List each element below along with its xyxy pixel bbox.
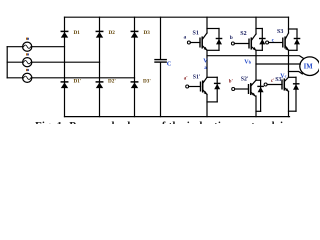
svg-text:S3: S3 — [277, 29, 283, 35]
wire leg A mid riser — [206, 50, 208, 77]
svg-text:b': b' — [229, 80, 233, 85]
igbt S3 — [266, 33, 289, 51]
wire S3 diode loop bottom — [289, 49, 298, 51]
igbt S2' — [232, 80, 256, 96]
wire S2' emitter riser — [255, 96, 257, 117]
wire S2 diode loop bottom — [256, 49, 262, 51]
wire S1' diode loop bottom — [207, 101, 217, 103]
igbt S3' — [264, 77, 289, 91]
diode D2 — [96, 31, 103, 37]
capacitor C — [155, 17, 166, 116]
wire bridge leg3 — [134, 17, 136, 116]
wire bridge leg2 — [99, 17, 101, 116]
wire S3' emitter riser — [288, 91, 290, 116]
svg-text:D2': D2' — [108, 78, 116, 84]
diode D3' — [131, 82, 138, 88]
svg-text:a: a — [184, 35, 187, 41]
svg-text:D1: D1 — [74, 30, 81, 36]
svg-text:S1: S1 — [193, 31, 199, 37]
ac source V3 — [23, 73, 32, 82]
wire bus to V1 — [7, 46, 22, 48]
svg-text:C: C — [167, 61, 172, 68]
diode S3 freewheel — [294, 29, 300, 50]
wire leg C mid riser — [288, 50, 290, 77]
svg-text:D1': D1' — [74, 78, 82, 84]
svg-text:S2': S2' — [241, 77, 249, 83]
ac source V2 — [23, 58, 32, 67]
diode S1' freewheel — [214, 77, 220, 102]
wire leg B mid riser — [255, 50, 257, 80]
diode S1 freewheel — [216, 29, 222, 51]
diode D3 — [131, 31, 138, 37]
wire S3 diode loop top — [289, 28, 298, 30]
phase mark B — [26, 53, 29, 55]
wire S2 diode loop top — [256, 28, 262, 30]
svg-text:D2: D2 — [109, 30, 116, 36]
svg-text:Fig. 1: Proposed scheme of the: Fig. 1: Proposed scheme of the induction… — [35, 120, 294, 124]
wire phase A to leg1 — [32, 46, 65, 48]
wire S1 diode loop top — [207, 28, 219, 30]
igbt S2 — [231, 34, 256, 51]
wire S1' emitter riser — [206, 94, 208, 116]
wire neutral bus — [6, 47, 8, 78]
phase mark C — [26, 69, 29, 71]
ac source V1 — [23, 42, 32, 51]
wire phase line Vb — [256, 63, 300, 65]
svg-text:V: V — [203, 59, 208, 65]
diode S3' freewheel — [293, 77, 299, 111]
wire DC- bottom rail — [65, 116, 290, 118]
svg-text:a': a' — [184, 77, 188, 82]
wire phase C to leg3 — [32, 77, 135, 79]
wire S2' diode loop bottom — [256, 110, 261, 112]
wire S1 diode loop bottom — [207, 49, 219, 51]
diode S2' freewheel — [258, 80, 264, 111]
wire bus to V3 — [7, 77, 22, 79]
diode D2' — [96, 82, 103, 88]
wire phase line Va — [207, 56, 303, 59]
wire S3' diode loop top — [289, 76, 297, 78]
motor IM — [300, 57, 320, 76]
diode D1' — [61, 82, 68, 88]
svg-text:IM: IM — [304, 64, 314, 71]
igbt S1 — [187, 33, 207, 51]
wire phase line Vc — [289, 72, 303, 74]
igbt S1' — [186, 77, 208, 94]
phase mark A — [26, 38, 29, 40]
svg-text:c': c' — [271, 79, 274, 84]
wire DC+ top rail — [65, 16, 289, 18]
wire S2 collector riser — [255, 17, 257, 34]
wire S3 collector riser — [288, 17, 290, 33]
wire S1 collector riser — [206, 17, 208, 33]
diode S2 freewheel — [259, 29, 265, 51]
wire S3' diode loop bottom — [289, 110, 297, 112]
svg-text:D3': D3' — [143, 78, 151, 84]
wire bus to V2 — [7, 61, 22, 63]
wire S1' diode loop top — [207, 76, 217, 78]
svg-text:S2: S2 — [240, 31, 246, 37]
wire phase B to leg2 — [32, 61, 100, 63]
svg-text:b: b — [230, 35, 233, 41]
wire S2' diode loop top — [256, 79, 261, 81]
svg-text:D3: D3 — [144, 30, 151, 36]
diode D1 — [61, 31, 68, 37]
svg-text:S1': S1' — [193, 75, 201, 81]
wire bridge leg1 — [64, 17, 66, 116]
